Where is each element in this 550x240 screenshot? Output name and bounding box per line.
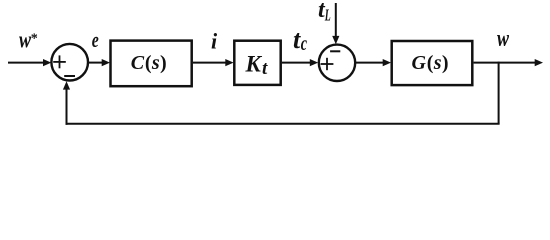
wire S1 to block C(s)	[88, 59, 110, 66]
wire feedback branch down from output node	[498, 62, 500, 124]
wire feedback up into S1	[63, 81, 70, 125]
wire feedback bottom run	[66, 123, 500, 125]
svg-text:w: w	[497, 26, 510, 52]
wire C(s) to block Kt	[193, 59, 234, 66]
wire S2 to block G(s)	[355, 59, 391, 66]
svg-text:t: t	[293, 25, 301, 54]
svg-text:K: K	[245, 52, 263, 77]
block G(s) plant	[392, 41, 473, 85]
svg-text:c: c	[301, 33, 307, 55]
node label e (error signal)	[92, 27, 99, 52]
wire output arrow from G(s)	[474, 59, 543, 66]
plus sign of S1	[53, 55, 66, 68]
svg-text:*: *	[31, 32, 38, 47]
node label w* (reference input)	[19, 27, 38, 53]
svg-text:t: t	[262, 58, 268, 79]
summing junction S1	[51, 44, 88, 81]
plus sign of S2	[321, 58, 334, 70]
svg-text:C(s): C(s)	[131, 52, 167, 74]
node label tL (load torque)	[318, 0, 331, 25]
minus sign of S1	[64, 75, 75, 77]
node label tc (control torque)	[293, 25, 307, 55]
minus sign of S2	[330, 50, 340, 52]
node label i (current signal)	[211, 29, 218, 54]
svg-text:G(s): G(s)	[412, 52, 449, 74]
svg-text:i: i	[211, 29, 218, 54]
wire Kt to summing junction S2	[282, 59, 318, 66]
summing junction S2	[319, 45, 355, 81]
block Kt torque constant	[234, 41, 280, 85]
block C(s) controller	[111, 41, 192, 87]
wire tL disturbance arrow into S2 from top	[332, 3, 339, 44]
node label w (output speed)	[497, 26, 510, 52]
svg-text:e: e	[92, 27, 99, 52]
wire input arrow into summing junction S1	[8, 59, 51, 66]
svg-text:L: L	[324, 6, 331, 25]
